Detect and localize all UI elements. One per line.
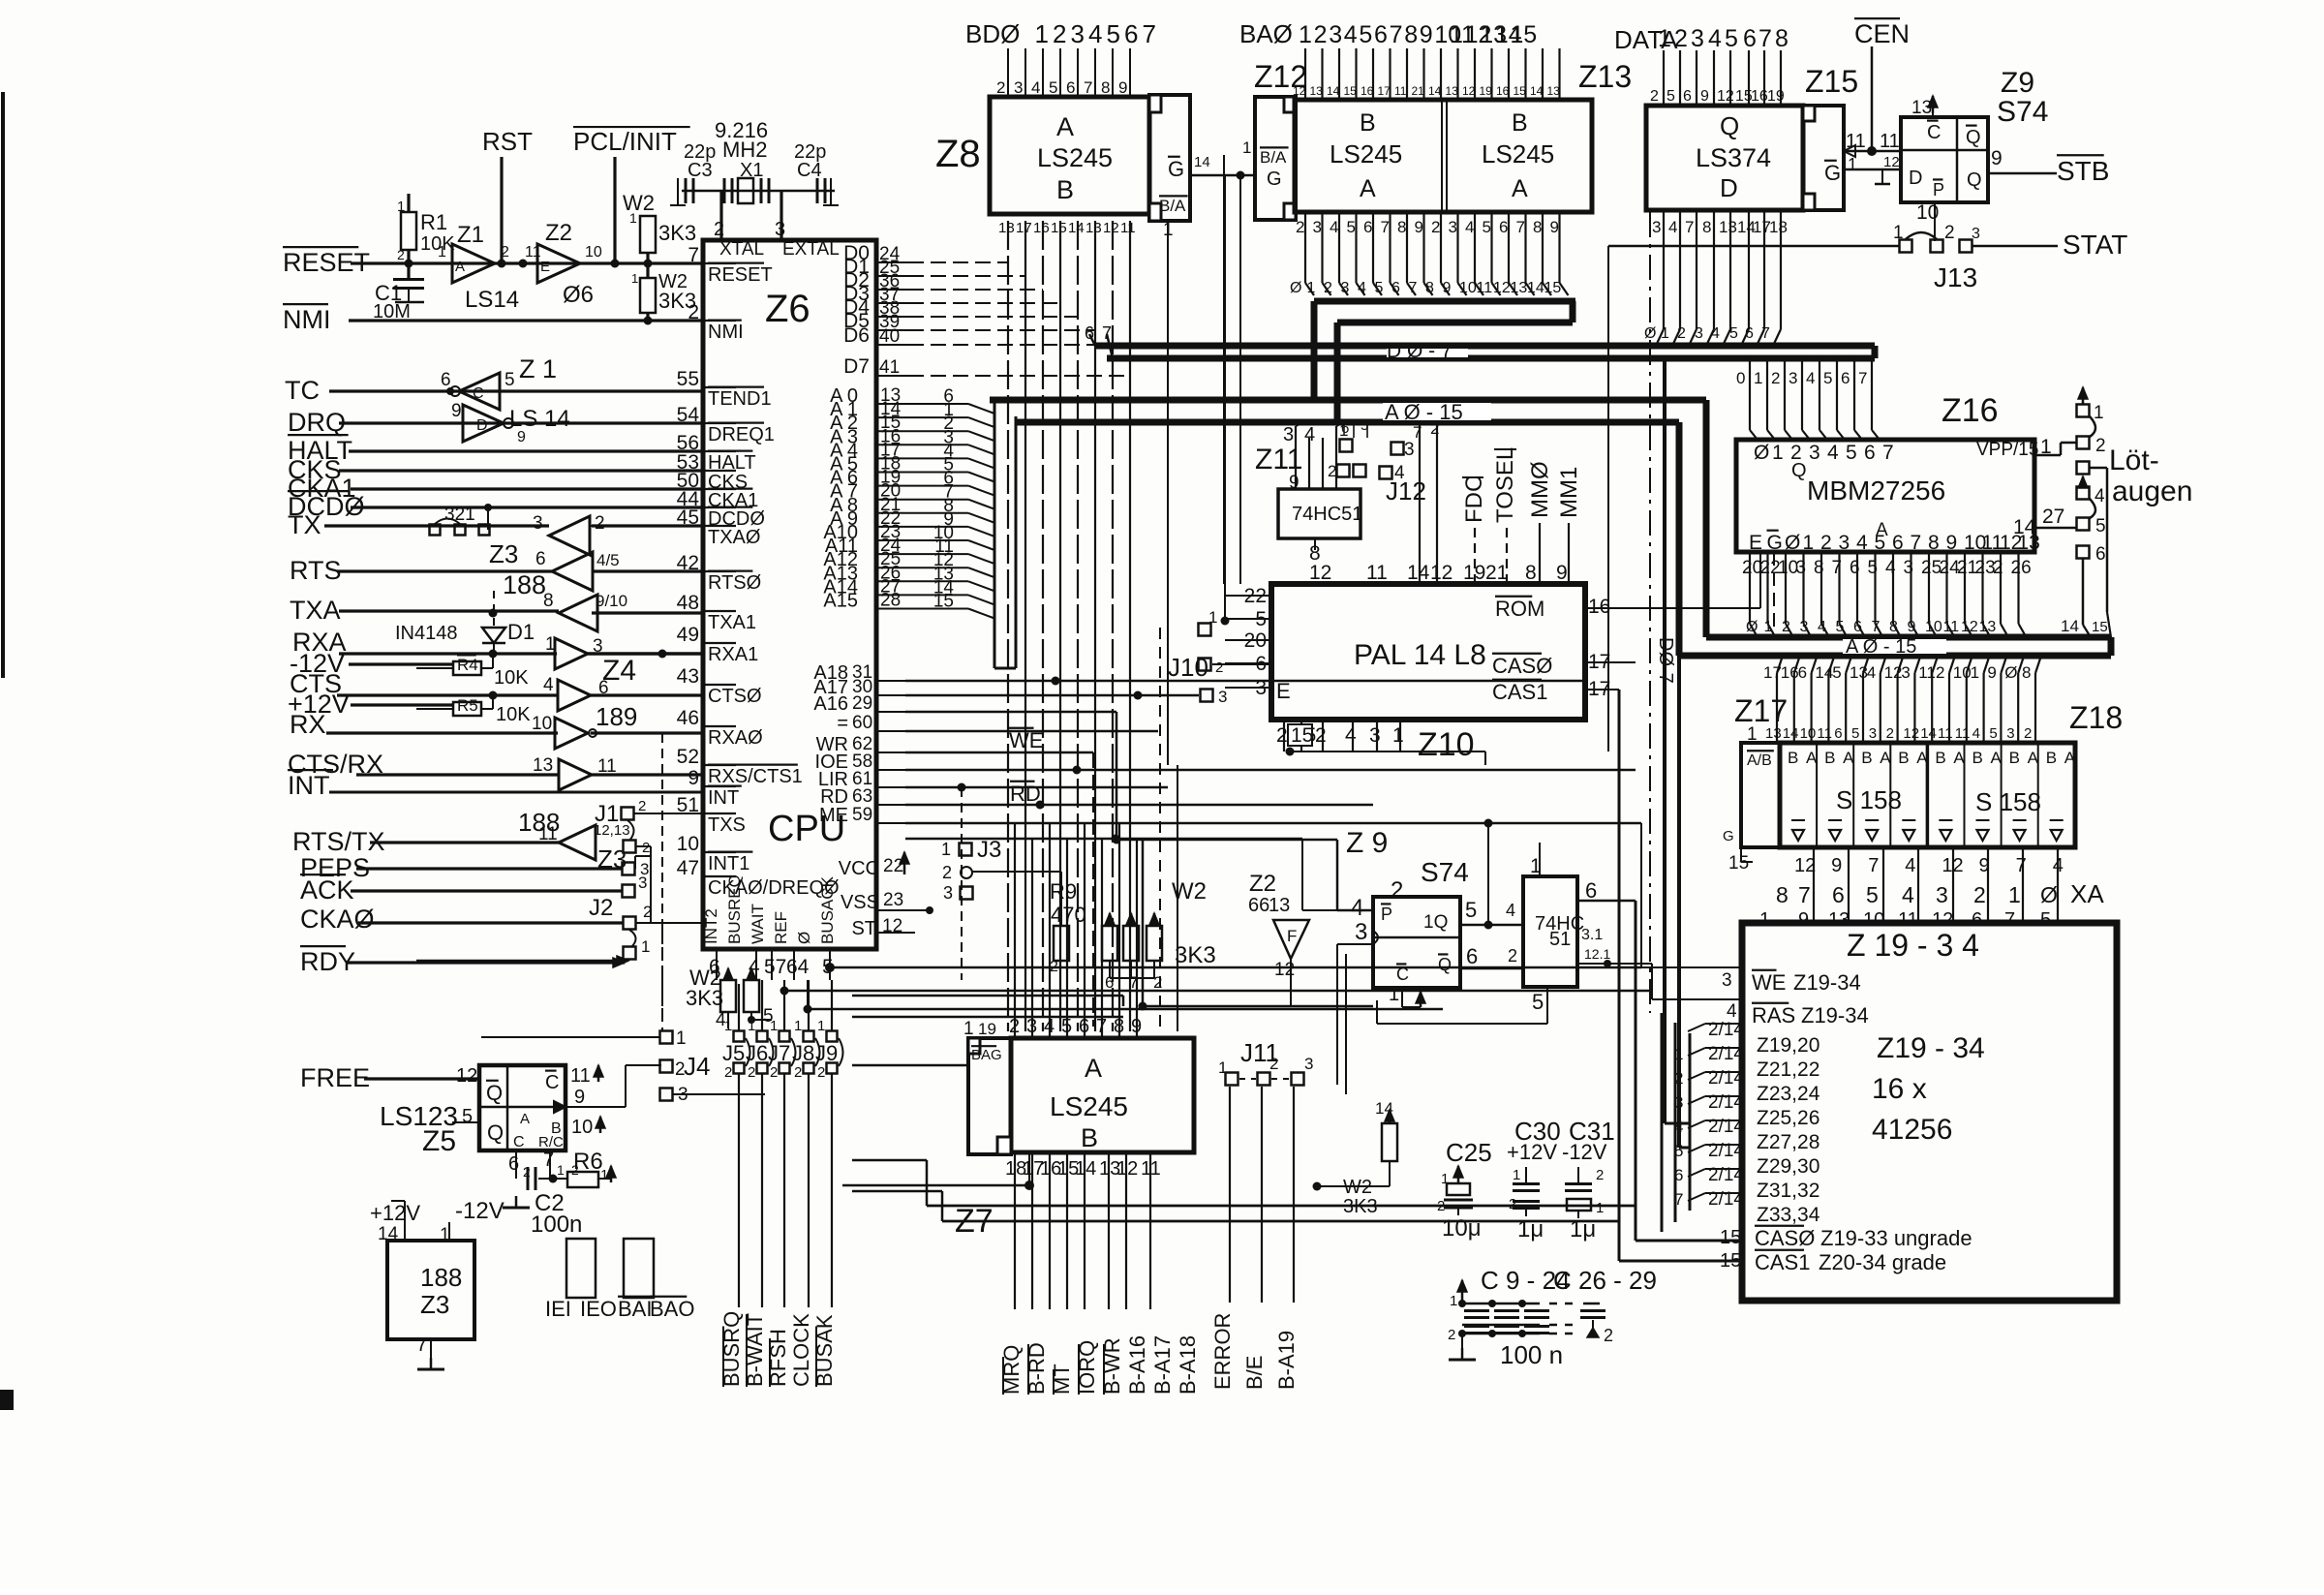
svg-text:G: G	[1824, 161, 1841, 185]
svg-text:3: 3	[1341, 280, 1350, 296]
svg-text:3: 3	[1449, 218, 1457, 236]
svg-text:MM1: MM1	[1556, 467, 1582, 518]
svg-text:4: 4	[1972, 725, 1980, 742]
svg-text:2: 2	[1314, 21, 1328, 48]
svg-text:XA: XA	[2070, 879, 2104, 908]
svg-text:13: 13	[1511, 280, 1528, 296]
svg-text:2: 2	[642, 840, 650, 856]
svg-text:XTAL: XTAL	[719, 239, 764, 260]
svg-text:14: 14	[1530, 84, 1544, 98]
svg-text:6: 6	[1832, 882, 1845, 907]
svg-text:5: 5	[1866, 882, 1879, 907]
svg-text:EXTAL: EXTAL	[782, 239, 840, 260]
svg-text:E: E	[1749, 532, 1762, 554]
svg-text:B-A16: B-A16	[1125, 1335, 1149, 1395]
svg-text:5: 5	[1667, 88, 1675, 105]
svg-text:Z18: Z18	[2069, 700, 2123, 735]
svg-text:A: A	[1880, 749, 1891, 767]
svg-text:1μ: 1μ	[1517, 1216, 1544, 1242]
svg-text:13: 13	[1086, 220, 1102, 236]
svg-text:17: 17	[1016, 220, 1032, 236]
svg-text:1: 1	[1658, 25, 1671, 52]
svg-text:7: 7	[543, 1150, 554, 1171]
svg-text:15: 15	[1544, 280, 1562, 296]
svg-text:45: 45	[677, 506, 699, 529]
svg-text:INT1: INT1	[708, 853, 749, 874]
svg-text:B: B	[1788, 749, 1798, 767]
svg-text:11: 11	[597, 756, 617, 777]
svg-text:1: 1	[545, 634, 556, 655]
svg-text:41: 41	[879, 357, 900, 378]
svg-text:3: 3	[533, 513, 543, 534]
svg-text:1: 1	[1307, 280, 1316, 296]
svg-text:2: 2	[1448, 1327, 1455, 1343]
svg-text:1: 1	[1971, 663, 1979, 682]
svg-text:12: 12	[1462, 84, 1476, 98]
svg-text:2: 2	[817, 1064, 825, 1081]
svg-text:7: 7	[1102, 323, 1112, 343]
svg-text:19: 19	[978, 1020, 996, 1038]
svg-text:4: 4	[1827, 442, 1839, 464]
svg-text:D: D	[476, 417, 488, 434]
svg-text:16: 16	[1496, 84, 1510, 98]
svg-text:-12V: -12V	[1562, 1140, 1607, 1164]
svg-text:Z19 - 34: Z19 - 34	[1877, 1032, 1985, 1064]
svg-text:Z 9: Z 9	[1346, 827, 1388, 859]
svg-text:A: A	[1806, 749, 1818, 767]
svg-text:2: 2	[1936, 663, 1944, 682]
svg-text:B-A19: B-A19	[1274, 1331, 1299, 1390]
svg-text:16: 16	[1781, 663, 1799, 682]
svg-text:321: 321	[444, 505, 475, 525]
svg-text:8: 8	[1397, 218, 1406, 236]
svg-text:1: 1	[397, 199, 405, 215]
svg-text:FDC: FDC	[1461, 475, 1487, 523]
svg-text:4: 4	[1905, 855, 1915, 876]
svg-text:9: 9	[1987, 663, 1996, 682]
svg-text:C 26 - 29: C 26 - 29	[1553, 1266, 1657, 1295]
svg-text:B/E: B/E	[1242, 1356, 1267, 1390]
svg-text:12: 12	[1794, 855, 1816, 876]
svg-text:74HC51: 74HC51	[1292, 504, 1362, 525]
svg-text:C: C	[473, 385, 484, 402]
svg-text:1: 1	[440, 1225, 450, 1245]
svg-text:3K3: 3K3	[658, 221, 696, 245]
svg-text:12: 12	[1493, 280, 1511, 296]
svg-text:WE: WE	[1752, 970, 1786, 995]
svg-text:11: 11	[1880, 131, 1900, 152]
svg-text:9: 9	[574, 1087, 585, 1108]
svg-text:16: 16	[1361, 84, 1374, 98]
svg-text:R5: R5	[457, 696, 478, 715]
svg-text:BAI: BAI	[618, 1297, 652, 1321]
svg-text:1: 1	[1596, 1200, 1604, 1216]
svg-text:7: 7	[1516, 218, 1525, 236]
svg-text:11: 11	[570, 1065, 591, 1087]
svg-text:TOSEL: TOSEL	[1492, 447, 1518, 523]
svg-text:2: 2	[1677, 325, 1686, 342]
svg-text:2: 2	[595, 513, 605, 534]
svg-text:2: 2	[1269, 1055, 1278, 1073]
svg-text:18: 18	[1769, 218, 1788, 236]
svg-text:9: 9	[1556, 562, 1568, 584]
svg-text:B: B	[1056, 175, 1074, 204]
svg-text:3: 3	[943, 883, 953, 903]
svg-text:CASØ: CASØ	[1492, 654, 1552, 678]
svg-text:BAG: BAG	[971, 1047, 1002, 1063]
svg-text:188: 188	[420, 1263, 462, 1292]
svg-text:10K: 10K	[496, 704, 531, 725]
svg-text:4: 4	[1344, 21, 1358, 48]
svg-text:6: 6	[1391, 280, 1400, 296]
svg-text:4: 4	[1351, 895, 1363, 921]
svg-text:B: B	[1935, 749, 1945, 767]
svg-text:C25: C25	[1446, 1138, 1492, 1167]
svg-text:3K3: 3K3	[686, 986, 723, 1010]
svg-text:4: 4	[1856, 532, 1868, 554]
svg-text:TXA: TXA	[290, 596, 341, 625]
svg-text:188: 188	[503, 570, 546, 599]
svg-text:19: 19	[1767, 88, 1785, 105]
svg-text:RTSØ: RTSØ	[708, 572, 761, 594]
svg-text:4: 4	[1708, 25, 1722, 52]
svg-text:2: 2	[688, 301, 699, 323]
svg-text:B/A: B/A	[1159, 197, 1186, 215]
svg-text:3K3: 3K3	[1175, 942, 1216, 968]
svg-text:5: 5	[1049, 78, 1057, 97]
svg-text:D7: D7	[843, 355, 870, 378]
svg-text:6: 6	[535, 549, 546, 569]
svg-text:3: 3	[1839, 532, 1850, 554]
svg-text:A: A	[1991, 749, 2003, 767]
svg-text:11: 11	[538, 824, 558, 844]
svg-text:12: 12	[1884, 663, 1903, 682]
svg-text:Z19-34: Z19-34	[1793, 970, 1861, 995]
svg-text:9/10: 9/10	[596, 592, 627, 610]
svg-text:2: 2	[1437, 1198, 1445, 1214]
svg-text:G: G	[1168, 157, 1184, 181]
svg-text:Z3: Z3	[597, 844, 627, 874]
svg-text:2: 2	[1674, 25, 1688, 52]
svg-text:46: 46	[677, 707, 699, 729]
svg-text:Ø6: Ø6	[563, 282, 594, 308]
svg-text:J6: J6	[746, 1041, 768, 1065]
svg-text:Z13: Z13	[1578, 59, 1632, 94]
svg-text:DREQ1: DREQ1	[708, 424, 775, 445]
svg-text:10: 10	[585, 244, 602, 261]
svg-text:3: 3	[1404, 440, 1415, 460]
svg-text:1: 1	[629, 210, 637, 226]
svg-text:2: 2	[1431, 218, 1440, 236]
svg-text:Z31,32: Z31,32	[1757, 1180, 1819, 1202]
svg-text:4/5: 4/5	[596, 551, 620, 569]
svg-text:15: 15	[933, 592, 954, 612]
svg-text:Z23,24: Z23,24	[1757, 1083, 1820, 1105]
svg-text:16: 16	[1033, 220, 1050, 236]
svg-text:A: A	[2064, 749, 2076, 767]
svg-text:+12V: +12V	[370, 1201, 420, 1225]
svg-text:2: 2	[643, 903, 652, 921]
svg-text:3: 3	[1809, 442, 1820, 464]
svg-text:6: 6	[1105, 973, 1114, 992]
svg-text:1: 1	[2094, 403, 2104, 423]
svg-text:40: 40	[879, 326, 900, 347]
svg-text:2: 2	[1509, 1196, 1516, 1212]
svg-text:12: 12	[1883, 154, 1900, 170]
svg-text:Z 19 - 3 4: Z 19 - 3 4	[1847, 928, 1979, 963]
svg-text:3: 3	[593, 636, 603, 657]
svg-text:10: 10	[532, 714, 552, 734]
svg-text:Z17: Z17	[1734, 693, 1788, 728]
svg-text:5: 5	[1836, 619, 1845, 635]
svg-text:TXAØ: TXAØ	[708, 527, 760, 548]
svg-text:Ø: Ø	[1785, 532, 1800, 554]
svg-text:9: 9	[517, 429, 526, 445]
svg-text:B: B	[1360, 109, 1376, 137]
svg-text:B: B	[1861, 749, 1872, 767]
svg-text:J2: J2	[589, 895, 613, 921]
svg-text:1: 1	[1299, 21, 1312, 48]
svg-text:4: 4	[1818, 619, 1826, 635]
svg-text:11: 11	[1943, 619, 1960, 635]
svg-text:5: 5	[1832, 663, 1841, 682]
svg-text:WE: WE	[1009, 728, 1043, 752]
svg-text:Z1: Z1	[457, 222, 484, 248]
svg-text:15: 15	[1728, 853, 1749, 874]
svg-text:G: G	[1267, 169, 1282, 190]
svg-text:7: 7	[1868, 855, 1879, 876]
svg-text:1: 1	[1513, 1167, 1520, 1183]
svg-text:1: 1	[600, 1167, 608, 1183]
svg-text:7: 7	[1390, 21, 1403, 48]
svg-text:4: 4	[1031, 78, 1040, 97]
svg-text:49: 49	[677, 624, 699, 646]
svg-text:Q: Q	[486, 1081, 503, 1105]
svg-text:7: 7	[1761, 325, 1770, 342]
svg-text:6: 6	[1499, 218, 1508, 236]
svg-text:1: 1	[963, 1019, 974, 1039]
svg-text:Q: Q	[487, 1120, 504, 1145]
svg-text:P: P	[1933, 180, 1944, 199]
svg-text:10K: 10K	[494, 667, 529, 689]
svg-text:15: 15	[1720, 1227, 1741, 1248]
svg-text:Z3: Z3	[489, 539, 518, 568]
svg-text:IN4148: IN4148	[395, 623, 458, 644]
svg-text:1: 1	[1764, 619, 1773, 635]
svg-text:INT2: INT2	[702, 908, 720, 944]
svg-text:A: A	[1916, 749, 1928, 767]
svg-text:2: 2	[1604, 1326, 1613, 1345]
svg-text:DØ-7: DØ-7	[1655, 637, 1676, 684]
svg-text:8: 8	[1776, 882, 1789, 907]
svg-text:3: 3	[1869, 725, 1877, 742]
svg-text:ST: ST	[851, 918, 876, 939]
svg-text:1: 1	[724, 1018, 732, 1034]
svg-text:Z2: Z2	[1249, 871, 1276, 897]
svg-text:LS245: LS245	[1037, 143, 1113, 172]
svg-text:3: 3	[1283, 424, 1294, 445]
svg-text:13: 13	[1446, 84, 1459, 98]
svg-text:Z3: Z3	[420, 1290, 449, 1319]
svg-text:4: 4	[1902, 882, 1914, 907]
svg-text:1: 1	[2008, 882, 2021, 907]
svg-text:3: 3	[638, 874, 647, 892]
svg-text:43: 43	[677, 665, 699, 688]
svg-text:64: 64	[786, 956, 810, 978]
svg-text:LS245: LS245	[1482, 139, 1554, 169]
svg-text:LS14: LS14	[465, 287, 519, 313]
svg-text:2: 2	[1315, 724, 1327, 747]
svg-text:7: 7	[1798, 882, 1811, 907]
svg-text:5: 5	[1107, 19, 1120, 48]
svg-text:CASØ: CASØ	[1755, 1226, 1815, 1250]
svg-text:6: 6	[1745, 325, 1754, 342]
svg-text:5: 5	[1846, 442, 1857, 464]
svg-text:J5: J5	[722, 1041, 745, 1065]
svg-text:9: 9	[1415, 218, 1423, 236]
svg-text:7: 7	[1858, 369, 1867, 387]
svg-text:12: 12	[1430, 562, 1452, 584]
svg-text:2: 2	[1324, 280, 1332, 296]
svg-text:B: B	[1898, 749, 1909, 767]
svg-text:2: 2	[724, 1064, 732, 1081]
svg-text:BAO: BAO	[650, 1297, 694, 1321]
svg-text:NMI: NMI	[283, 305, 331, 334]
svg-text:15: 15	[2092, 619, 2108, 635]
svg-text:Ø: Ø	[1290, 280, 1301, 296]
svg-text:A/B: A/B	[1747, 752, 1772, 769]
svg-text:5: 5	[1483, 218, 1491, 236]
svg-text:1: 1	[817, 1018, 825, 1034]
svg-text:RAS: RAS	[1752, 1003, 1795, 1028]
svg-text:12: 12	[1103, 220, 1119, 236]
svg-text:13: 13	[1269, 895, 1290, 916]
svg-text:Z2: Z2	[545, 220, 572, 246]
svg-text:-12V: -12V	[455, 1198, 505, 1224]
svg-text:2: 2	[1771, 369, 1780, 387]
svg-text:4: 4	[1711, 325, 1720, 342]
svg-text:8: 8	[1775, 25, 1789, 52]
svg-text:3: 3	[1652, 218, 1661, 236]
svg-text:11: 11	[1394, 84, 1407, 98]
svg-text:F: F	[1287, 927, 1297, 945]
svg-text:60: 60	[852, 713, 872, 733]
svg-text:189: 189	[596, 702, 637, 731]
svg-text:15: 15	[1344, 84, 1358, 98]
svg-text:A: A	[1953, 749, 1965, 767]
svg-text:13: 13	[533, 755, 553, 776]
svg-text:12: 12	[1293, 84, 1306, 98]
svg-text:1: 1	[438, 244, 446, 261]
svg-text:3: 3	[1800, 619, 1809, 635]
svg-text:6: 6	[2095, 544, 2106, 565]
svg-text:CAS1: CAS1	[1492, 680, 1547, 704]
svg-text:B-A18: B-A18	[1176, 1335, 1200, 1395]
svg-text:54: 54	[677, 404, 700, 426]
svg-text:6: 6	[508, 1153, 519, 1175]
svg-text:3: 3	[1901, 663, 1910, 682]
svg-text:13: 13	[1979, 619, 1997, 635]
svg-text:42: 42	[677, 552, 699, 574]
svg-text:2: 2	[1596, 1167, 1604, 1183]
svg-text:4: 4	[1358, 280, 1366, 296]
svg-text:5: 5	[505, 370, 515, 390]
svg-text:BAØ: BAØ	[1239, 19, 1293, 48]
svg-text:3: 3	[1313, 218, 1322, 236]
svg-text:0: 0	[1736, 369, 1745, 387]
svg-text:2: 2	[397, 247, 405, 262]
svg-text:2: 2	[1973, 882, 1986, 907]
svg-text:21: 21	[1485, 562, 1508, 584]
svg-text:3: 3	[1071, 19, 1085, 48]
svg-text:13: 13	[1310, 84, 1324, 98]
svg-text:22: 22	[883, 856, 903, 876]
svg-text:11: 11	[1938, 725, 1953, 742]
svg-text:A: A	[1360, 175, 1376, 202]
svg-text:2: 2	[2095, 436, 2106, 456]
svg-text:1: 1	[1803, 532, 1815, 554]
svg-text:2: 2	[770, 1064, 778, 1081]
svg-text:3: 3	[775, 219, 785, 240]
svg-text:LS 14: LS 14	[509, 406, 570, 432]
svg-text:10: 10	[677, 833, 699, 855]
svg-text:B: B	[1972, 749, 1983, 767]
svg-text:14: 14	[1068, 220, 1085, 236]
svg-text:9: 9	[1946, 532, 1958, 554]
svg-text:8: 8	[1525, 562, 1537, 584]
svg-text:Ø: Ø	[795, 932, 813, 944]
svg-text:W2: W2	[1172, 878, 1207, 905]
svg-text:7: 7	[1882, 442, 1894, 464]
svg-text:6: 6	[1085, 323, 1094, 343]
svg-text:2: 2	[638, 798, 646, 814]
svg-text:9: 9	[1831, 855, 1842, 876]
svg-text:ACK: ACK	[300, 875, 354, 905]
svg-text:17: 17	[1763, 663, 1782, 682]
svg-text:6: 6	[1374, 21, 1388, 48]
svg-text:5: 5	[1875, 532, 1886, 554]
svg-text:Z33,34: Z33,34	[1757, 1204, 1820, 1226]
svg-text:9: 9	[1991, 147, 2003, 169]
svg-text:9: 9	[688, 767, 699, 789]
svg-text:1: 1	[1754, 369, 1762, 387]
svg-text:ERROR: ERROR	[1210, 1313, 1235, 1390]
svg-text:10: 10	[1953, 663, 1972, 682]
svg-text:8: 8	[2022, 663, 2031, 682]
svg-text:1: 1	[1242, 138, 1251, 157]
svg-text:1: 1	[1389, 984, 1399, 1005]
svg-text:1: 1	[557, 1162, 565, 1178]
svg-text:FREE: FREE	[300, 1063, 370, 1092]
svg-text:3: 3	[1722, 970, 1732, 991]
svg-text:1: 1	[770, 1018, 778, 1034]
svg-text:J8: J8	[792, 1041, 814, 1065]
svg-text:41256: 41256	[1872, 1114, 1952, 1146]
svg-text:14: 14	[1815, 663, 1833, 682]
svg-text:C: C	[1927, 122, 1941, 143]
svg-text:CTSØ: CTSØ	[708, 686, 762, 707]
svg-text:STAT: STAT	[2063, 230, 2127, 260]
svg-text:TC: TC	[285, 376, 320, 405]
svg-text:12: 12	[1961, 619, 1978, 635]
svg-text:Z29,30: Z29,30	[1757, 1155, 1819, 1178]
svg-text:11: 11	[525, 244, 541, 261]
svg-text:E: E	[540, 259, 550, 275]
svg-text:2: 2	[1153, 973, 1162, 992]
svg-text:C3: C3	[688, 160, 713, 181]
svg-text:9: 9	[1550, 218, 1559, 236]
svg-text:A15: A15	[823, 591, 858, 612]
